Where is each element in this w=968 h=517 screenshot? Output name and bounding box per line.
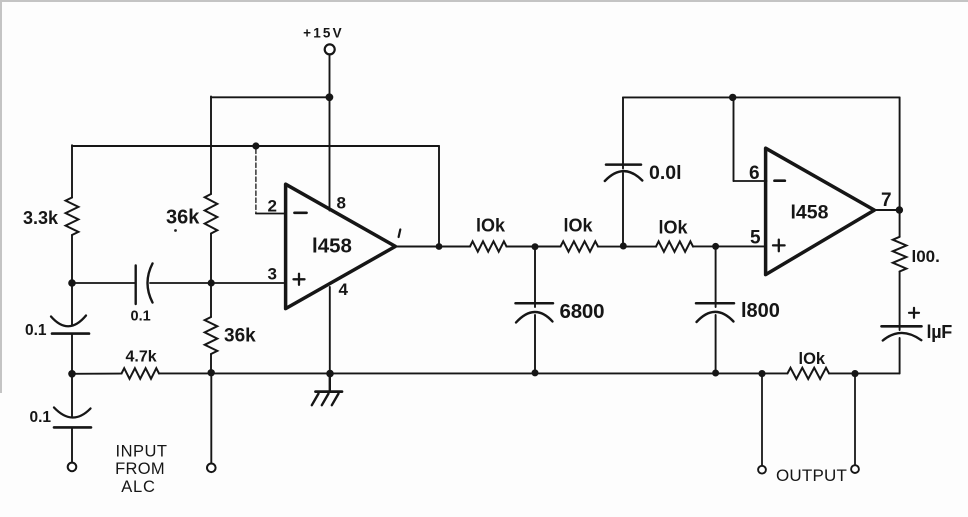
svg-text:l00.: l00. — [912, 247, 940, 266]
wire +15V vertical to pin 8 of U1 — [329, 55, 331, 211]
svg-text:5: 5 — [750, 228, 761, 249]
resistor 10k (first) — [470, 241, 507, 251]
wire series cap to pin 3 — [150, 282, 286, 284]
op-amp U1 1458 triangle — [286, 184, 396, 308]
svg-text:l800: l800 — [741, 300, 780, 322]
op-amp U1 plus sign — [294, 274, 305, 285]
pin number 1 — [399, 230, 401, 238]
svg-text:OUTPUT: OUTPUT — [776, 466, 847, 485]
svg-text:0.1: 0.1 — [25, 322, 47, 339]
capacitor 6800 — [516, 303, 554, 322]
wire: top border scan edge — [0, 0, 968, 2]
wire pin 4 to ground — [329, 287, 331, 374]
wire pin2 horizontal into U1 — [256, 213, 286, 215]
label INPUT FROM ALC — [115, 443, 167, 497]
node output terminal left — [758, 466, 766, 474]
capacitor 0.1 (input, bottom left) — [54, 408, 91, 428]
op-amp U2 1458 triangle — [766, 148, 875, 274]
svg-text:3: 3 — [268, 265, 278, 284]
wire: left border scan edge — [0, 0, 2, 393]
svg-text:lOk: lOk — [799, 350, 826, 368]
svg-text:7: 7 — [881, 190, 892, 211]
node input terminal 2 — [207, 464, 216, 473]
wire output terminal left drop — [761, 374, 763, 466]
svg-text:6: 6 — [749, 163, 760, 184]
resistor 100 — [893, 237, 907, 272]
svg-text:6800: 6800 — [560, 300, 605, 323]
wire 10k third to pin 5 — [693, 245, 766, 247]
wire left column upper — [71, 145, 73, 197]
junction dot 6800 tap — [532, 243, 539, 250]
wire bottom rail right segment — [829, 372, 900, 374]
svg-text:lOk: lOk — [476, 216, 506, 236]
wire 6800 branch upper — [534, 247, 536, 307]
junction dot output tap left — [758, 370, 765, 377]
svg-text:0.0l: 0.0l — [649, 162, 682, 184]
wire pin2 tap vertical (faint) — [255, 149, 257, 214]
svg-text:0.1: 0.1 — [30, 409, 52, 426]
wire 36k to pin3 node — [210, 234, 212, 284]
wire feedback vertical — [438, 146, 440, 247]
wire +15V rail horizontal to 36k — [211, 96, 330, 98]
junction dot output/feedback — [436, 243, 443, 250]
wire bottom rail left segment — [72, 373, 122, 375]
wire 1800 branch upper — [715, 246, 717, 307]
wire pin 6 horizontal into U2 — [734, 180, 767, 182]
capacitor 1uF — [882, 326, 922, 340]
wire down to 0.1 input cap — [71, 374, 73, 417]
wire 1uF to bottom rail corner — [899, 338, 901, 373]
svg-text:4: 4 — [339, 280, 349, 299]
wire pin 6 vertical — [733, 97, 735, 181]
wire output terminal right drop — [854, 374, 856, 466]
wire 3.3k to node A — [71, 235, 73, 283]
wire 100 to 1uF — [899, 272, 901, 331]
junction dot 1800 tap — [712, 243, 719, 250]
svg-text:l458: l458 — [791, 202, 829, 224]
wire U2 feedback bus y=97 — [623, 96, 900, 98]
wire 0.1 to input terminal 1 — [71, 428, 73, 463]
wire 0.01 branch upper — [622, 97, 624, 168]
wire 0.01 branch lower — [622, 173, 624, 246]
wire node A down to 0.1 cap — [71, 283, 73, 325]
svg-text:ALC: ALC — [121, 478, 156, 496]
resistor 10k (output) — [788, 368, 830, 379]
svg-text:lµF: lµF — [927, 322, 953, 342]
capacitor 1800 — [696, 303, 734, 322]
wire lower 36k to bottom rail — [210, 354, 212, 373]
svg-text:36k: 36k — [166, 207, 200, 229]
label 36k upper — [166, 207, 200, 232]
node output terminal right — [851, 465, 859, 473]
wire 6800 branch lower — [534, 315, 536, 373]
junction dot node A — [68, 279, 76, 287]
wire 1800 branch lower — [715, 315, 717, 373]
resistor 10k (third) — [656, 241, 693, 251]
svg-text:4.7k: 4.7k — [126, 349, 157, 366]
wire bottom rail main segment — [159, 372, 788, 374]
wire between 10k 1-2 — [507, 246, 561, 248]
junction dot 0.01 tap — [620, 243, 627, 250]
junction dot left bottom rail — [68, 370, 76, 378]
capacitor 0.01 — [605, 165, 643, 181]
op-amp U1 minus sign — [295, 211, 307, 214]
op-amp U2 minus sign — [775, 179, 785, 182]
resistor 4.7k — [122, 368, 160, 379]
wire feedback vertical right — [899, 97, 901, 236]
wire feedback bus y=146 — [72, 145, 439, 147]
node +15V supply terminal — [325, 44, 335, 54]
svg-text:36k: 36k — [224, 326, 256, 347]
junction dot 36k / pin3 wire — [208, 279, 215, 286]
svg-text:2: 2 — [268, 197, 278, 216]
capacitor 0.1 (left middle) — [51, 316, 89, 334]
wire U2 output to junction — [874, 209, 899, 211]
node input terminal 1 — [68, 463, 77, 472]
resistor 36k (upper) — [205, 194, 218, 234]
junction dot ground node — [326, 370, 334, 378]
svg-text:+15V: +15V — [303, 26, 344, 41]
op-amp U2 plus sign — [773, 240, 785, 252]
svg-text:8: 8 — [337, 194, 347, 213]
svg-text:lOk: lOk — [659, 218, 689, 238]
junction dot 36k / bottom rail — [208, 369, 215, 376]
wire U1 output — [395, 246, 470, 248]
capacitor 1uF polarity plus — [909, 308, 919, 318]
wire 36k column upper — [210, 96, 212, 194]
wire down to input terminal 2 — [210, 373, 212, 464]
svg-text:0.1: 0.1 — [131, 309, 151, 325]
junction dot pin6 tap — [729, 94, 736, 101]
junction dot output tap right — [851, 370, 858, 377]
svg-text:FROM: FROM — [115, 460, 165, 478]
svg-text:3.3k: 3.3k — [23, 208, 59, 228]
junction dot pin 7 — [896, 206, 903, 213]
junction dot pin2 tap — [252, 142, 259, 149]
capacitor 0.1 (series coupling) — [136, 264, 153, 305]
wire node A to series cap — [72, 282, 136, 284]
svg-text:INPUT: INPUT — [116, 443, 168, 461]
svg-text:lOk: lOk — [564, 216, 594, 236]
wire between 10k 2-3 — [598, 246, 656, 248]
junction dot +15V rail — [326, 93, 334, 101]
wire pin3 node down to lower 36k — [210, 283, 212, 317]
resistor 3.3k — [66, 198, 79, 236]
resistor 36k (lower) — [205, 317, 218, 354]
junction dot 6800/bottom — [532, 369, 539, 376]
wire 0.1 cap to bottom rail — [71, 334, 73, 374]
junction dot 1800/bottom — [712, 370, 719, 377]
svg-text:l458: l458 — [312, 235, 352, 258]
resistor 10k (second) — [561, 241, 599, 251]
ground symbol — [312, 374, 342, 406]
